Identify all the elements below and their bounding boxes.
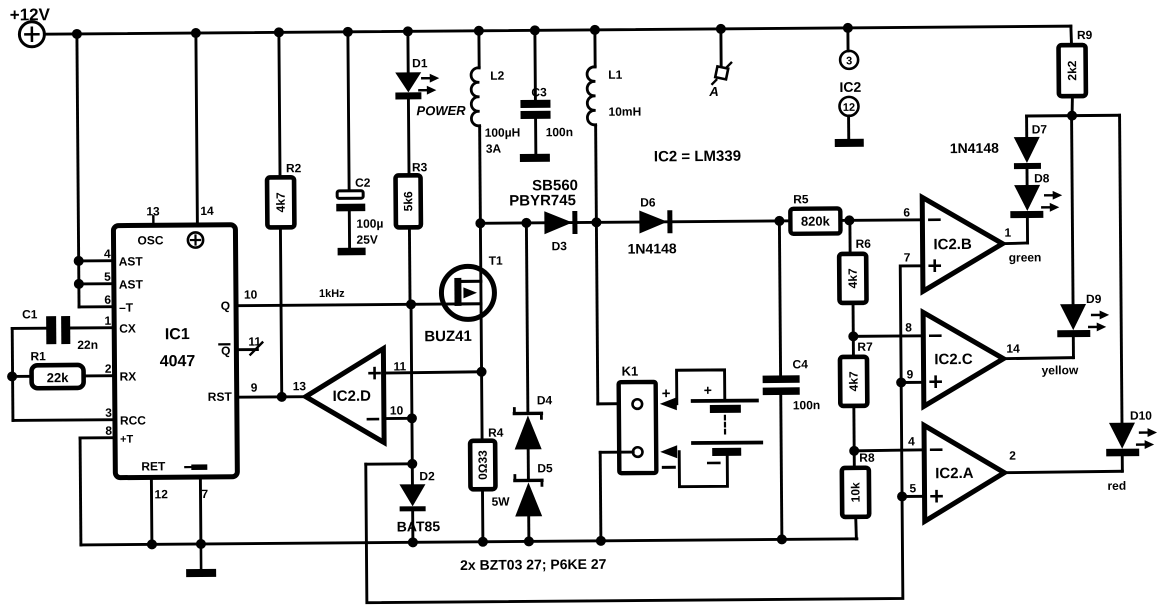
svg-text:AST: AST	[119, 254, 144, 268]
svg-text:POWER: POWER	[416, 103, 466, 118]
svg-text:BUZ41: BUZ41	[424, 328, 472, 345]
svg-text:12: 12	[843, 102, 855, 114]
svg-text:L1: L1	[608, 68, 622, 82]
svg-text:R6: R6	[856, 237, 872, 251]
svg-text:2: 2	[105, 362, 112, 376]
svg-text:RST: RST	[208, 390, 233, 404]
svg-text:+T: +T	[120, 434, 134, 446]
svg-text:100µH: 100µH	[485, 125, 521, 139]
svg-text:RX: RX	[120, 369, 137, 383]
svg-text:1: 1	[104, 314, 111, 328]
svg-text:6: 6	[104, 293, 111, 307]
svg-text:IC2.D: IC2.D	[333, 388, 372, 405]
svg-text:RET: RET	[141, 459, 166, 473]
svg-text:5: 5	[909, 481, 916, 495]
svg-text:K1: K1	[622, 364, 639, 379]
svg-text:11: 11	[393, 359, 406, 373]
svg-text:1kHz: 1kHz	[319, 288, 345, 300]
svg-text:R4: R4	[488, 426, 504, 440]
svg-text:22n: 22n	[77, 338, 98, 352]
svg-text:14: 14	[200, 204, 214, 218]
svg-text:AST: AST	[119, 277, 144, 291]
svg-text:14: 14	[1006, 342, 1020, 356]
svg-text:R8: R8	[859, 451, 875, 465]
svg-text:6: 6	[903, 205, 910, 219]
svg-text:IC2.C: IC2.C	[934, 351, 973, 368]
svg-text:11: 11	[248, 335, 261, 349]
svg-text:10: 10	[390, 403, 404, 417]
svg-text:25V: 25V	[356, 233, 377, 247]
svg-text:IC2.B: IC2.B	[933, 236, 972, 253]
svg-text:+12V: +12V	[10, 5, 51, 24]
svg-text:2x BZT03 27; P6KE 27: 2x BZT03 27; P6KE 27	[460, 556, 607, 573]
svg-text:D1: D1	[412, 56, 428, 70]
svg-text:4: 4	[908, 434, 915, 448]
svg-text:OSC: OSC	[137, 233, 163, 247]
svg-text:green: green	[1009, 250, 1042, 264]
svg-text:IC2.A: IC2.A	[935, 465, 974, 482]
svg-text:4: 4	[104, 247, 111, 261]
svg-text:D9: D9	[1086, 292, 1102, 306]
svg-text:9: 9	[907, 367, 914, 381]
svg-text:4k7: 4k7	[847, 371, 861, 391]
svg-text:IC2 = LM339: IC2 = LM339	[654, 148, 741, 166]
svg-text:0Ω33: 0Ω33	[476, 450, 490, 480]
svg-text:7: 7	[904, 250, 911, 264]
svg-text:5W: 5W	[492, 495, 511, 509]
svg-text:5: 5	[104, 270, 111, 284]
svg-text:4047: 4047	[160, 353, 196, 370]
svg-text:3: 3	[105, 406, 112, 420]
svg-text:3A: 3A	[486, 142, 502, 156]
svg-text:5k6: 5k6	[401, 191, 415, 211]
svg-text:IC2: IC2	[839, 79, 861, 95]
svg-text:R7: R7	[857, 340, 873, 354]
svg-text:PBYR745: PBYR745	[509, 192, 576, 210]
svg-text:3: 3	[846, 55, 852, 67]
svg-text:red: red	[1107, 479, 1126, 493]
svg-text:7: 7	[201, 487, 208, 501]
svg-text:D10: D10	[1130, 409, 1152, 423]
svg-text:D2: D2	[419, 469, 435, 483]
svg-text:D8: D8	[1034, 171, 1050, 185]
svg-text:12: 12	[154, 487, 168, 501]
svg-text:10: 10	[244, 288, 258, 302]
svg-text:22k: 22k	[47, 370, 70, 385]
svg-text:8: 8	[105, 424, 112, 438]
svg-text:820k: 820k	[801, 214, 831, 229]
svg-text:RCC: RCC	[120, 413, 146, 427]
svg-text:100n: 100n	[546, 125, 573, 139]
svg-text:10k: 10k	[848, 482, 862, 502]
svg-text:2: 2	[1009, 449, 1016, 463]
svg-text:A: A	[708, 84, 719, 99]
svg-text:+: +	[704, 382, 712, 398]
svg-text:4k7: 4k7	[846, 268, 860, 288]
svg-text:R2: R2	[286, 161, 302, 175]
svg-text:L2: L2	[490, 69, 504, 83]
svg-text:C1: C1	[22, 307, 38, 321]
svg-text:T1: T1	[489, 254, 503, 268]
svg-text:10mH: 10mH	[608, 105, 641, 119]
svg-text:D3: D3	[552, 239, 568, 253]
svg-text:yellow: yellow	[1042, 363, 1079, 377]
svg-text:D7: D7	[1032, 122, 1048, 136]
svg-text:CX: CX	[119, 321, 136, 335]
svg-text:R3: R3	[412, 160, 428, 174]
svg-text:Q: Q	[221, 299, 230, 313]
svg-text:IC1: IC1	[165, 326, 190, 343]
svg-text:R9: R9	[1077, 28, 1093, 42]
svg-text:–T: –T	[119, 301, 134, 315]
svg-text:+: +	[662, 385, 671, 402]
svg-text:100n: 100n	[793, 398, 820, 412]
svg-text:1N4148: 1N4148	[628, 240, 677, 256]
svg-text:2k2: 2k2	[1065, 60, 1079, 80]
svg-text:C2: C2	[355, 176, 371, 190]
svg-text:13: 13	[146, 204, 160, 218]
svg-text:D6: D6	[640, 195, 656, 209]
svg-text:100µ: 100µ	[356, 217, 383, 231]
svg-text:D5: D5	[537, 461, 553, 475]
svg-text:9: 9	[251, 381, 258, 395]
svg-text:13: 13	[293, 379, 307, 393]
svg-text:R1: R1	[30, 349, 46, 363]
svg-text:8: 8	[905, 320, 912, 334]
svg-text:C4: C4	[792, 357, 808, 371]
svg-text:Q: Q	[221, 344, 230, 358]
svg-text:R5: R5	[793, 192, 809, 206]
svg-text:4k7: 4k7	[274, 192, 288, 212]
svg-text:D4: D4	[537, 393, 553, 407]
svg-text:1N4148: 1N4148	[950, 140, 999, 156]
svg-text:BAT85: BAT85	[397, 518, 441, 534]
svg-text:1: 1	[1004, 226, 1011, 240]
svg-text:C3: C3	[531, 85, 547, 99]
